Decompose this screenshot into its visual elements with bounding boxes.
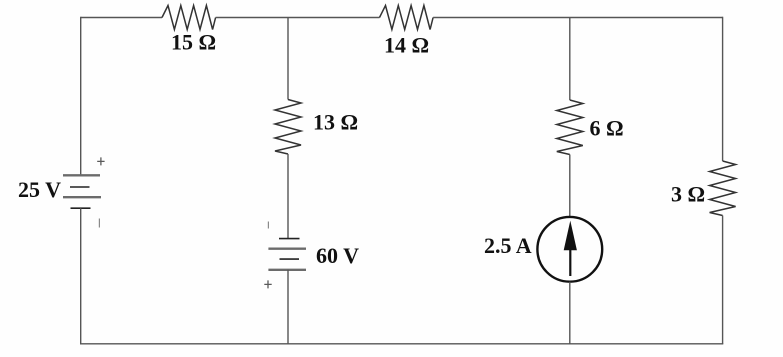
- svg-text:2.5 A: 2.5 A: [484, 233, 532, 258]
- svg-text:25 V: 25 V: [18, 177, 61, 202]
- svg-text:15 Ω: 15 Ω: [171, 30, 216, 55]
- svg-text:6 Ω: 6 Ω: [590, 116, 624, 141]
- current source 2.5 A: [537, 217, 602, 282]
- plus sign of 25 V battery: [97, 157, 104, 165]
- wire right upper: [722, 17, 724, 161]
- wire between 6 ohm and current source: [569, 155, 571, 217]
- label 13 Ω: [313, 110, 358, 135]
- wire middle between resistor and battery: [287, 154, 289, 239]
- svg-text:60 V: 60 V: [316, 243, 359, 268]
- label 25 V: [18, 177, 61, 202]
- minus sign of 60 V battery: [267, 222, 269, 229]
- svg-text:3 Ω: 3 Ω: [671, 182, 705, 207]
- label 14 Ω: [384, 33, 429, 58]
- resistor 13 ohm: [275, 100, 301, 155]
- resistor 6 ohm: [557, 100, 583, 155]
- resistor 14 ohm: [380, 6, 434, 30]
- resistor 3 ohm: [710, 161, 736, 216]
- label 2.5 A: [484, 233, 532, 258]
- wire bottom: [80, 343, 723, 345]
- resistor 15 ohm: [162, 6, 216, 30]
- label 60 V: [316, 243, 359, 268]
- wire top-left segment: [81, 17, 162, 19]
- wire top-right segment: [433, 17, 722, 19]
- svg-text:13 Ω: 13 Ω: [313, 110, 358, 135]
- wire current-source branch upper: [569, 18, 571, 101]
- wire middle branch lower: [287, 270, 289, 344]
- wire top-middle segment: [216, 17, 380, 19]
- wire current-source branch lower: [569, 282, 571, 344]
- battery 60 V: [268, 239, 306, 270]
- wire middle branch upper: [287, 18, 289, 100]
- wire left upper: [80, 17, 82, 175]
- minus sign of 25 V battery: [98, 219, 100, 228]
- label 15 Ω: [171, 30, 216, 55]
- wire right lower: [722, 216, 724, 344]
- label 3 Ω: [671, 182, 705, 207]
- label 6 Ω: [590, 116, 624, 141]
- svg-text:14 Ω: 14 Ω: [384, 33, 429, 58]
- wire left lower: [80, 208, 82, 344]
- plus sign of 60 V battery: [264, 280, 271, 288]
- battery 25 V: [63, 175, 101, 208]
